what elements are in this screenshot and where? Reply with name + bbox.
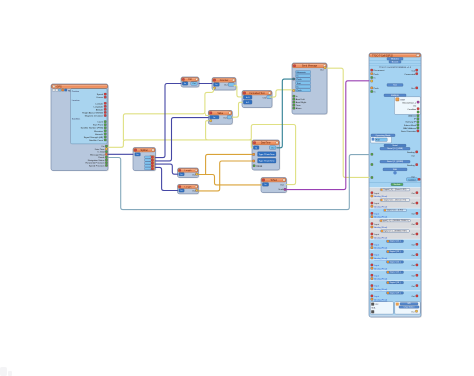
svg-text:Digital [ 19 ]: Digital [ 19 ]	[390, 291, 401, 294]
svg-text:Boards: Boards	[392, 60, 399, 63]
text splitter block U2 (Structure/Splitter)	[133, 148, 156, 172]
svg-text:Longitude: Longitude	[94, 105, 104, 108]
svg-text:Out: Out	[411, 192, 415, 195]
wire U5.bottom to trunk (yellow)	[206, 121, 252, 140]
svg-text:Serial Converter: Serial Converter	[401, 130, 416, 133]
wire GPS.Reads to U12.Serial0 (steel blue)	[108, 155, 369, 210]
counter block U4 (Counter)	[212, 78, 237, 91]
svg-text:Signal Strength (dB): Signal Strength (dB)	[84, 136, 104, 139]
wire U2.pin0 to U3.In (navy)	[156, 84, 182, 158]
wire GPS.DateTime trunk to U9.row1 (yellow)	[108, 125, 296, 185]
svg-text:Send Message: Send Message	[302, 66, 318, 68]
svg-text:Analog (Float): Analog (Float)	[374, 298, 387, 301]
GPS subcomponent strip	[52, 89, 74, 92]
U12 digital channel 4	[370, 229, 421, 240]
svg-text:Out: Out	[411, 295, 415, 298]
svg-text:Is Valid: Is Valid	[98, 152, 106, 154]
svg-text:Input: Input	[374, 243, 379, 246]
svg-text:Horizontal Precision: Horizontal Precision	[85, 162, 105, 165]
U12 digital channel 6	[370, 250, 421, 261]
svg-text:Out: Out	[411, 254, 415, 257]
svg-text:Chip Select: Chip Select	[404, 305, 415, 308]
U12 Text section	[371, 84, 418, 94]
svg-text:Input: Input	[374, 192, 379, 195]
svg-text:Input: Input	[374, 212, 379, 215]
U7 left input boxes	[293, 71, 311, 92]
svg-text:Type TDateTime: Type TDateTime	[259, 160, 276, 163]
svg-text:GPS: GPS	[56, 86, 62, 89]
svg-text:Push: Push	[297, 90, 303, 92]
svg-text:Input: Input	[374, 295, 379, 298]
svg-text:I2C: I2C	[375, 304, 379, 306]
U8 field rows	[253, 152, 276, 163]
wire U10.Out branch to U8.pin1 (gold)	[206, 154, 253, 174]
svg-text:Course: Course	[96, 97, 104, 99]
svg-text:Speed: Speed	[97, 94, 104, 96]
wire U4.bottom to GPS trunk (yellow)	[123, 88, 213, 140]
wire trunk drop to U8.In (yellow)	[250, 140, 253, 148]
U12 bottom left inner box (I2C)	[370, 302, 393, 314]
svg-text:Out: Out	[223, 116, 227, 119]
date/time clock block U8 (Decode DateTime)	[252, 140, 280, 171]
U12 digital channel 7	[370, 260, 421, 271]
svg-text:Splitter: Splitter	[141, 149, 149, 152]
svg-text:Full: Full	[376, 140, 380, 142]
U8 clock pin row	[253, 165, 263, 168]
svg-text:Push: Push	[297, 79, 303, 81]
svg-text:Type TDateTime: Type TDateTime	[259, 153, 276, 156]
U2 output pin column	[145, 156, 155, 170]
U11 In box	[179, 189, 184, 192]
svg-text:Digital [ 18 ]: Digital [ 18 ]	[390, 281, 401, 284]
svg-text:Height Above WGS84: Height Above WGS84	[82, 111, 104, 114]
U12 operating mode white box	[371, 134, 396, 143]
svg-text:ToText: ToText	[270, 179, 277, 182]
svg-text:Out: Out	[411, 87, 415, 90]
U12 access point chip	[370, 181, 421, 183]
svg-text:Disconnect: Disconnect	[374, 69, 385, 72]
wire U2.pin2 to U10.In (navy)	[156, 164, 178, 174]
svg-text:Start From: Start From	[93, 124, 103, 127]
svg-text:Magnetic Deviation: Magnetic Deviation	[85, 115, 104, 118]
wire trunk branch to U5.left (yellow)	[206, 114, 209, 116]
U10 In box	[179, 173, 184, 176]
svg-text:DateTime: DateTime	[261, 142, 272, 145]
svg-text:TTGO T-Call ESP32 SIM800L v1.3: TTGO T-Call ESP32 SIM800L v1.3	[379, 67, 412, 69]
svg-text:Analog (Float): Analog (Float)	[374, 267, 387, 270]
svg-text:Input: Input	[374, 223, 379, 226]
GPS lower pin rows	[85, 145, 107, 167]
U7 lower pin rows	[293, 95, 307, 110]
svg-text:WiFi: WiFi	[393, 169, 398, 171]
svg-text:Message Read: Message Read	[90, 154, 105, 156]
svg-text:Digital [ 12 ]: Digital [ 12 ]	[390, 240, 401, 243]
svg-text:Azimuth: Azimuth	[95, 133, 104, 136]
svg-text:Satellite Count: Satellite Count	[89, 139, 103, 142]
wire U2.pin3 to U11.In (navy)	[156, 167, 178, 190]
svg-text:Digital [ 5 ] - (SIM800 RST): Digital [ 5 ] - (SIM800 RST)	[383, 229, 407, 232]
U6 In1 box	[243, 100, 252, 104]
U12 digital channel 2	[370, 208, 421, 219]
svg-text:Input: Input	[374, 285, 379, 288]
svg-text:Input: Input	[374, 233, 379, 236]
svg-text:Connect: Connect	[408, 178, 416, 181]
svg-text:Out: Out	[192, 173, 196, 176]
svg-text:Formatted Text: Formatted Text	[250, 92, 265, 95]
wire U6.Out to U7.TextIn (yellow)	[270, 90, 292, 97]
GPS inner panel with output pin rows	[71, 89, 107, 144]
svg-text:Digital [ 4 ] - (SIM800 PWKEY): Digital [ 4 ] - (SIM800 PWKEY)	[381, 219, 409, 222]
U12 digital channel 9	[370, 281, 421, 292]
svg-text:Sending: Sending	[407, 152, 415, 154]
svg-text:Cnt: Cnt	[188, 78, 192, 81]
text value block U5 (Value)	[208, 110, 233, 125]
U12 board section chips	[387, 58, 403, 61]
packet block U7 (Serial Send Formatted)	[292, 63, 328, 115]
svg-text:Push: Push	[374, 74, 380, 76]
svg-text:Length: Length	[185, 185, 192, 188]
wire U11.Out to U8.pin2 (gold)	[199, 161, 253, 191]
svg-text:Value: Value	[217, 112, 224, 115]
svg-text:Out: Out	[413, 105, 417, 108]
svg-text:Reads: Reads	[98, 157, 104, 159]
U12 digital channel 3	[370, 219, 421, 230]
svg-text:Out: Out	[192, 190, 196, 193]
svg-text:Out: Out	[320, 69, 324, 72]
svg-text:Out: Out	[411, 223, 415, 226]
svg-text:Text: Text	[297, 82, 301, 85]
svg-text:Altitude: Altitude	[96, 108, 104, 111]
svg-text:Connected: Connected	[404, 73, 415, 76]
U9 In box	[262, 183, 268, 187]
svg-text:Position: Position	[72, 90, 80, 93]
svg-text:Clock: Clock	[256, 166, 263, 168]
wire U4.Out to U6.In0 (yellow)	[234, 85, 242, 97]
svg-text:Digital [ 1 ] - (Serial 0 TX): Digital [ 1 ] - (Serial 0 TX)	[384, 198, 407, 201]
svg-text:Sockets: Sockets	[394, 183, 401, 186]
U12 digital channel 8	[370, 270, 421, 281]
svg-text:Out: Out	[411, 285, 415, 288]
svg-text:Time: Time	[296, 105, 302, 107]
U4 bottom pin	[213, 87, 215, 89]
wire U9.Scale to U12 (purple)	[287, 81, 370, 190]
svg-text:Address: Address	[408, 115, 416, 118]
svg-text:Serial: Serial	[392, 144, 398, 147]
svg-text:Serial [ 0 ] (USB): Serial [ 0 ] (USB)	[387, 147, 403, 150]
svg-text:Out: Out	[411, 213, 415, 216]
svg-text:TTGO T-Call ESP32: TTGO T-Call ESP32	[372, 55, 393, 57]
U12 bottom right inner box (SPI)	[395, 302, 420, 314]
svg-text:Satellite Number (PRN): Satellite Number (PRN)	[81, 127, 104, 130]
U8 top In box + Out	[253, 146, 259, 150]
svg-text:Gateway IP: Gateway IP	[405, 121, 416, 124]
svg-text:Sending: Sending	[407, 165, 415, 167]
text length block U10 (Length 1)	[178, 168, 200, 178]
svg-text:Out: Out	[263, 96, 267, 99]
U12 Serial[1] section	[371, 160, 418, 167]
svg-text:Satellites: Satellites	[72, 117, 80, 120]
U3 In box	[182, 82, 188, 85]
svg-text:Avail Right: Avail Right	[296, 101, 307, 104]
GPS sensor block U1 (Serial GPS / NMEA)	[51, 84, 109, 171]
svg-text:Digital [ 13 ]: Digital [ 13 ]	[390, 250, 401, 253]
svg-text:Count: Count	[97, 121, 103, 124]
svg-text:Out: Out	[411, 274, 415, 277]
counter block U3 (small pass-through)	[181, 77, 200, 88]
svg-text:Out: Out	[280, 184, 284, 187]
svg-text:Elevation: Elevation	[94, 130, 104, 133]
svg-text:Digital [ 14 ]: Digital [ 14 ]	[390, 260, 401, 263]
svg-text:Analog (Float): Analog (Float)	[374, 216, 387, 219]
svg-text:SPI: SPI	[407, 303, 411, 305]
wire U5.Out to U6.In1 (yellow)	[232, 102, 242, 117]
svg-text:Digital [ 2 ] - (LED): Digital [ 2 ] - (LED)	[387, 209, 404, 212]
wire GPS.MessageRead to U2.In (navy)	[108, 153, 133, 155]
svg-text:SIM800L: SIM800L	[391, 95, 400, 97]
svg-text:Input: Input	[374, 274, 379, 277]
datetime-to-text block U9 (Text Length)	[261, 178, 287, 194]
svg-text:Scale: Scale	[278, 189, 284, 191]
svg-text:Out: Out	[271, 146, 275, 149]
U6 In0 box	[243, 95, 252, 99]
svg-text:Out: Out	[411, 244, 415, 247]
U12 Serial[0] section	[371, 147, 418, 157]
svg-text:Subnet Mask: Subnet Mask	[404, 124, 417, 127]
svg-text:Out: Out	[411, 264, 415, 267]
svg-text:Bits (without...): Bits (without...)	[402, 101, 416, 104]
U2 In pin box	[135, 153, 141, 156]
svg-text:Out: Out	[224, 84, 228, 87]
U12 digital channel 0	[370, 188, 421, 199]
U12 bottom strip	[370, 315, 420, 317]
U3 Out box	[191, 82, 197, 85]
svg-text:Location: Location	[72, 99, 81, 102]
U12 network property rows	[401, 115, 419, 133]
svg-text:Serial [ 1 ] (GSM): Serial [ 1 ] (GSM)	[387, 160, 403, 163]
wire U3.Out to U4.In (navy)	[199, 83, 212, 85]
U5 bottom pin	[210, 120, 212, 122]
svg-text:Out: Out	[192, 82, 196, 85]
U12 GSM rows	[371, 69, 418, 82]
svg-text:Operating Mode: Operating Mode	[376, 134, 392, 137]
svg-text:Push: Push	[374, 88, 380, 90]
formatted text block U6 (Formatted Text 1)	[242, 91, 273, 109]
wire U2.pin1 to U5.In (navy)	[156, 118, 209, 161]
U12 WiFi section	[371, 168, 420, 181]
U12 inner white box (GSM module)	[384, 94, 421, 114]
svg-text:Navigation Status: Navigation Status	[88, 159, 105, 162]
U4 In box	[214, 83, 220, 86]
U12 serial separator	[384, 144, 406, 147]
svg-text:Avail Left: Avail Left	[296, 98, 305, 101]
svg-text:Input: Input	[374, 264, 379, 267]
svg-text:Out: Out	[411, 233, 415, 236]
wire U10.Out to U9.In (gold)	[199, 175, 262, 185]
svg-text:Speed Precision: Speed Precision	[89, 165, 105, 167]
arduino board block U12 (TTGO T-Call ESP32) outer	[369, 53, 422, 318]
U12 digital channel 1	[370, 198, 421, 209]
svg-text:Digital [ 15 ]: Digital [ 15 ]	[390, 271, 401, 274]
svg-text:Length: Length	[185, 169, 192, 172]
svg-text:Counter: Counter	[220, 79, 229, 82]
svg-text:Input: Input	[374, 202, 379, 205]
wire U8.Out to U7.In (teal)	[277, 79, 292, 148]
svg-text:Input: Input	[374, 254, 379, 257]
svg-text:Out: Out	[411, 310, 415, 313]
svg-text:GSM: GSM	[400, 99, 405, 101]
svg-text:Out: Out	[411, 69, 415, 72]
svg-text:Latitude: Latitude	[95, 102, 103, 105]
svg-text:Digital [ 0 ] - (Serial 0 RX): Digital [ 0 ] - (Serial 0 RX)	[384, 188, 407, 191]
svg-text:MAC Address: MAC Address	[403, 127, 416, 130]
svg-text:Out: Out	[411, 155, 415, 158]
svg-text:Date Time: Date Time	[95, 148, 106, 151]
U5 In box	[210, 116, 219, 119]
U12 digital channel 5	[370, 239, 421, 250]
U12 digital channel 10	[370, 291, 421, 302]
svg-text:Elements: Elements	[297, 71, 307, 74]
faint watermark bottom-left	[0, 367, 12, 376]
svg-text:Alarm: Alarm	[296, 107, 302, 110]
svg-text:Text: Text	[393, 84, 397, 87]
wire U7.Out to U12.WiFi (yellow)	[327, 68, 369, 177]
svg-text:Modules: Modules	[391, 58, 399, 60]
svg-text:Out: Out	[411, 202, 415, 205]
svg-text:Condition: Condition	[407, 108, 417, 111]
text length block U11 (Length 2)	[178, 184, 200, 194]
